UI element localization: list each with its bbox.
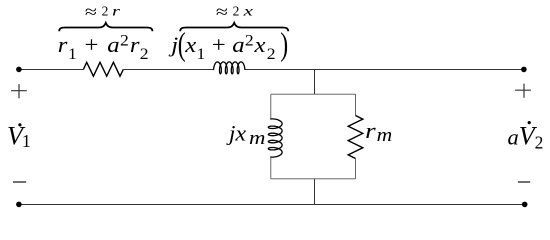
- terminal dot top-left: [16, 67, 22, 73]
- brace over r1+a^2r2: [59, 23, 152, 31]
- svg-text:r: r: [112, 4, 120, 19]
- inductor j(x1+a^2x2): [214, 62, 245, 74]
- svg-text:2: 2: [233, 4, 240, 19]
- dot over V1: [18, 123, 21, 126]
- wire bottom: [19, 204, 525, 206]
- wire top middle: [123, 69, 213, 71]
- wire shunt top stub: [314, 70, 316, 95]
- plus sign right: [515, 84, 531, 98]
- terminal dot bottom-left: [16, 202, 22, 208]
- svg-text:2: 2: [102, 3, 109, 18]
- minus sign left: [13, 181, 26, 183]
- svg-text:x: x: [242, 3, 253, 18]
- terminal dot bottom-right: [522, 202, 528, 208]
- wire top right: [245, 69, 524, 71]
- svg-text:(: (: [178, 26, 186, 63]
- dot over V2: [528, 121, 531, 124]
- wire left branch lower: [270, 157, 272, 179]
- terminal dot top-right: [521, 67, 527, 73]
- svg-text:jx: jx: [226, 120, 247, 145]
- wire box bottom: [271, 178, 356, 180]
- resistor rm: [348, 116, 363, 159]
- svg-text:): ): [280, 26, 288, 63]
- svg-text:≈: ≈: [85, 3, 97, 22]
- svg-text:aV2: aV2: [508, 122, 544, 153]
- minus sign right: [518, 181, 530, 183]
- inductor jxm: [268, 119, 282, 157]
- wire shunt bottom stub: [314, 179, 316, 205]
- resistor r1+a^2r2: [83, 62, 123, 76]
- svg-text:m: m: [249, 129, 265, 149]
- svg-text:≈: ≈: [216, 3, 228, 22]
- brace over x1+a^2x2: [180, 23, 288, 31]
- wire box top: [271, 93, 356, 95]
- plus sign left: [11, 84, 27, 98]
- svg-text:r1+a2r2: r1+a2r2: [58, 31, 149, 62]
- wire left branch upper: [270, 94, 272, 119]
- wire right branch lower: [355, 159, 357, 179]
- wire right branch upper: [355, 94, 357, 115]
- svg-text:m: m: [377, 125, 393, 145]
- svg-text:r: r: [365, 119, 376, 143]
- wire top left: [19, 69, 84, 71]
